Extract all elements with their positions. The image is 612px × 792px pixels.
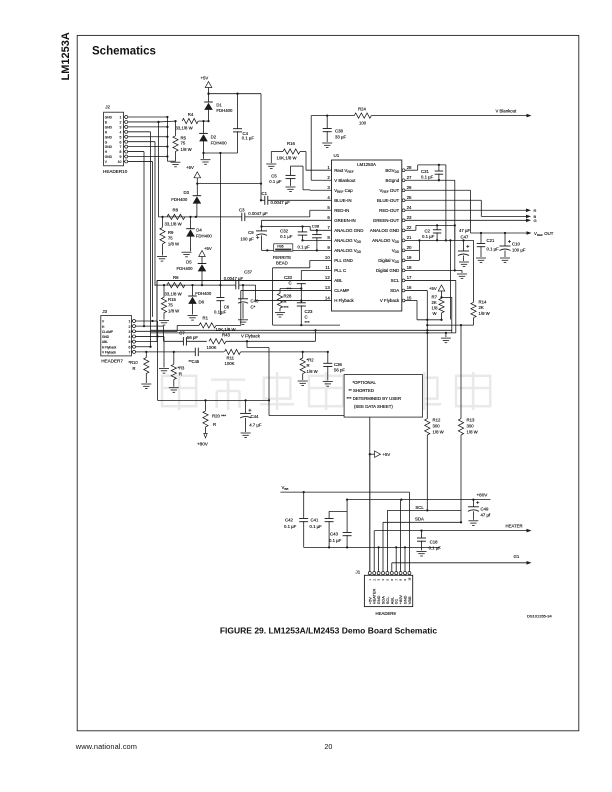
- svg-text:0.1 µF: 0.1 µF: [429, 546, 442, 551]
- svg-text:11: 11: [325, 265, 330, 270]
- svg-text:R6: R6: [173, 275, 179, 280]
- svg-text:J2: J2: [105, 105, 110, 110]
- svg-text:C2: C2: [425, 228, 431, 233]
- svg-text:BEAD: BEAD: [276, 261, 288, 266]
- svg-text:300: 300: [433, 424, 441, 429]
- svg-text:4: 4: [129, 335, 131, 339]
- svg-text:0.1 µF: 0.1 µF: [487, 247, 500, 252]
- svg-text:(SEE DATA SHEET): (SEE DATA SHEET): [354, 404, 393, 409]
- svg-text:R9: R9: [168, 230, 174, 235]
- svg-text:47 µf: 47 µf: [481, 513, 491, 518]
- svg-text:BLUE-OUT: BLUE-OUT: [377, 198, 400, 203]
- svg-text:R14: R14: [479, 300, 487, 305]
- svg-text:4: 4: [120, 130, 122, 134]
- svg-text:C31: C31: [421, 169, 429, 174]
- svg-text:75: 75: [181, 141, 186, 146]
- svg-text:FB6: FB6: [277, 244, 283, 248]
- svg-text:R11: R11: [227, 355, 235, 360]
- svg-text:0.1 µF: 0.1 µF: [310, 524, 323, 529]
- svg-text:SCL: SCL: [391, 278, 400, 283]
- svg-text:1/8: 1/8: [432, 305, 439, 310]
- svg-text:5: 5: [120, 135, 122, 139]
- svg-text:*R3: *R3: [178, 366, 186, 371]
- svg-text:FDH400: FDH400: [211, 140, 228, 145]
- svg-text:*R2: *R2: [307, 358, 315, 363]
- svg-text:7: 7: [129, 351, 131, 355]
- svg-text:D1: D1: [216, 102, 222, 107]
- svg-text:** SHORTED: ** SHORTED: [349, 388, 374, 393]
- svg-text:33,1/8 W: 33,1/8 W: [165, 291, 183, 296]
- svg-text:17: 17: [407, 275, 412, 280]
- svg-text:R: R: [307, 363, 310, 368]
- svg-text:DS101265-34: DS101265-34: [527, 614, 552, 619]
- svg-text:Schematics: Schematics: [92, 46, 156, 58]
- svg-text:C*: C*: [251, 305, 256, 310]
- svg-text:100 µF: 100 µF: [240, 237, 254, 242]
- svg-text:C18: C18: [430, 539, 438, 544]
- svg-text:22: 22: [407, 225, 412, 230]
- svg-text:CLAMP: CLAMP: [102, 330, 113, 334]
- svg-text:C42: C42: [285, 518, 293, 523]
- svg-text:R1: R1: [203, 316, 209, 321]
- svg-text:**C45: **C45: [189, 359, 200, 364]
- svg-text:***: ***: [284, 305, 289, 310]
- svg-text:100: 100: [359, 121, 367, 126]
- svg-text:33,1/8 W: 33,1/8 W: [176, 125, 194, 130]
- svg-text:C7: C7: [179, 331, 185, 336]
- svg-text:H Flyback: H Flyback: [334, 298, 354, 303]
- svg-text:C23: C23: [305, 309, 313, 314]
- svg-text:15: 15: [407, 295, 412, 300]
- svg-text:C: C: [305, 315, 308, 320]
- svg-text:C: C: [289, 281, 292, 286]
- svg-text:4.7 µF: 4.7 µF: [249, 422, 262, 427]
- svg-text:8: 8: [120, 150, 122, 154]
- svg-text:HEADER10: HEADER10: [103, 169, 128, 174]
- svg-text:C3: C3: [239, 207, 245, 212]
- svg-text:R: R: [213, 422, 216, 427]
- svg-text:FDH400: FDH400: [177, 266, 194, 271]
- svg-text:47 µF: 47 µF: [459, 228, 470, 233]
- svg-text:ANALOG GND: ANALOG GND: [370, 228, 399, 233]
- svg-text:3: 3: [129, 330, 131, 334]
- svg-text:+5V: +5V: [383, 452, 391, 457]
- svg-text:75: 75: [168, 303, 173, 308]
- svg-text:20: 20: [324, 742, 332, 751]
- svg-text:28: 28: [407, 165, 412, 170]
- svg-text:27: 27: [407, 175, 412, 180]
- svg-text:RED-IN: RED-IN: [334, 208, 349, 213]
- svg-text:SCL: SCL: [415, 505, 424, 510]
- svg-text:2K: 2K: [432, 300, 437, 305]
- svg-text:5: 5: [129, 340, 131, 344]
- svg-text:GND: GND: [105, 155, 113, 159]
- svg-text:9: 9: [120, 155, 122, 159]
- svg-text:10K,1/8 W: 10K,1/8 W: [216, 327, 237, 332]
- svg-text:C38: C38: [335, 128, 343, 133]
- svg-text:C32: C32: [280, 228, 288, 233]
- svg-text:C21: C21: [487, 238, 495, 243]
- svg-text:19: 19: [407, 255, 412, 260]
- svg-text:LM1253A: LM1253A: [60, 32, 72, 80]
- svg-text:C41: C41: [311, 518, 319, 523]
- svg-text:+80V: +80V: [477, 493, 489, 498]
- svg-text:23: 23: [407, 215, 412, 220]
- svg-text:G1: G1: [514, 554, 520, 559]
- svg-text:1/8 W: 1/8 W: [467, 430, 479, 435]
- svg-text:FDH400: FDH400: [216, 108, 233, 113]
- svg-text:SDA: SDA: [390, 288, 399, 293]
- svg-text:R24: R24: [358, 106, 366, 111]
- svg-text:C1: C1: [262, 191, 268, 196]
- svg-text:GREEN-IN: GREEN-IN: [334, 218, 355, 223]
- svg-text:1/8 W: 1/8 W: [168, 308, 180, 313]
- svg-text:33,1/8 W: 33,1/8 W: [165, 221, 183, 226]
- svg-text:J1: J1: [356, 570, 361, 575]
- svg-text:0.1 µF: 0.1 µF: [298, 244, 311, 249]
- svg-text:G: G: [534, 218, 537, 223]
- svg-text:***: ***: [305, 320, 310, 325]
- svg-text:U1: U1: [334, 153, 340, 158]
- svg-text:FERRITE: FERRITE: [273, 255, 292, 260]
- svg-text:3: 3: [120, 125, 122, 129]
- svg-text:R: R: [179, 372, 182, 377]
- svg-text:SDA: SDA: [415, 516, 424, 521]
- svg-text:R8: R8: [173, 207, 179, 212]
- svg-text:CLAMP: CLAMP: [334, 288, 349, 293]
- svg-text:FDH400: FDH400: [196, 233, 213, 238]
- svg-text:14: 14: [325, 295, 330, 300]
- svg-text:25: 25: [407, 195, 412, 200]
- svg-text:18: 18: [407, 265, 412, 270]
- svg-text:B: B: [105, 121, 107, 125]
- svg-text:RED-OUT: RED-OUT: [379, 208, 399, 213]
- svg-text:BGgnd: BGgnd: [386, 178, 400, 183]
- svg-text:PLL C: PLL C: [334, 268, 346, 273]
- svg-text:R28: R28: [284, 293, 292, 298]
- svg-text:100K: 100K: [225, 361, 235, 366]
- svg-text:R12: R12: [433, 418, 441, 423]
- svg-text:C38: C38: [312, 224, 320, 229]
- svg-text:0.1 µF: 0.1 µF: [284, 524, 297, 529]
- svg-text:V Blankout: V Blankout: [496, 108, 518, 113]
- svg-text:R16: R16: [287, 141, 295, 146]
- svg-text:0.1 µF: 0.1 µF: [280, 234, 293, 239]
- svg-text:D6: D6: [199, 299, 205, 304]
- svg-text:C5: C5: [271, 173, 277, 178]
- svg-text:V Flyback: V Flyback: [380, 298, 400, 303]
- svg-text:0.1 µF: 0.1 µF: [269, 179, 282, 184]
- svg-text:GND: GND: [105, 145, 113, 149]
- svg-text:C40: C40: [251, 299, 259, 304]
- svg-text:2: 2: [129, 325, 131, 329]
- svg-text:*** DETERMINED BY USER: *** DETERMINED BY USER: [347, 396, 402, 401]
- svg-text:J3: J3: [102, 309, 107, 314]
- svg-text:0.1 µF: 0.1 µF: [329, 538, 342, 543]
- svg-text:2K: 2K: [479, 305, 484, 310]
- svg-text:100 µF: 100 µF: [512, 247, 526, 252]
- svg-text:C36: C36: [334, 362, 342, 367]
- svg-text:D4: D4: [196, 228, 202, 233]
- svg-text:R13: R13: [467, 418, 475, 423]
- svg-text:24: 24: [407, 205, 412, 210]
- svg-text:R43: R43: [222, 333, 230, 338]
- svg-text:1/8 W: 1/8 W: [168, 241, 180, 246]
- svg-text:0.0047 µF: 0.0047 µF: [248, 211, 268, 216]
- svg-text:VBB: VBB: [407, 596, 412, 604]
- svg-text:GREEN-OUT: GREEN-OUT: [373, 218, 400, 223]
- svg-text:R4: R4: [188, 112, 194, 117]
- svg-text:+5V: +5V: [201, 76, 209, 81]
- svg-text:*R10: *R10: [129, 360, 139, 365]
- svg-text:GND: GND: [105, 125, 113, 129]
- svg-text:2: 2: [120, 121, 122, 125]
- svg-text:75: 75: [168, 235, 173, 240]
- svg-text:0.1 µF: 0.1 µF: [421, 174, 434, 179]
- svg-text:1: 1: [120, 116, 122, 120]
- svg-text:D2: D2: [211, 135, 217, 140]
- svg-text:*OPTIONAL: *OPTIONAL: [353, 380, 377, 385]
- svg-text:R7: R7: [432, 295, 438, 300]
- svg-text:+5V: +5V: [186, 165, 194, 170]
- svg-text:Digital GND: Digital GND: [376, 268, 399, 273]
- svg-text:20: 20: [407, 245, 412, 250]
- svg-text:+5V: +5V: [204, 246, 212, 251]
- svg-text:C9: C9: [248, 230, 254, 235]
- svg-text:300: 300: [467, 424, 475, 429]
- svg-text:0.1 µF: 0.1 µF: [242, 136, 255, 141]
- svg-text:R: R: [284, 299, 287, 304]
- svg-text:10: 10: [118, 160, 122, 164]
- svg-text:V Flyback: V Flyback: [102, 351, 116, 355]
- svg-text:21: 21: [407, 235, 412, 240]
- svg-text:R20 ***: R20 ***: [212, 414, 226, 419]
- svg-text:+5V: +5V: [429, 286, 437, 291]
- svg-text:GND: GND: [102, 335, 110, 339]
- svg-text:V Blankout: V Blankout: [334, 178, 356, 183]
- svg-text:FDH400: FDH400: [195, 291, 212, 296]
- svg-text:6: 6: [129, 345, 131, 349]
- svg-text:BLUE-IN: BLUE-IN: [334, 198, 351, 203]
- svg-text:0.0047 µF: 0.0047 µF: [271, 200, 291, 205]
- svg-text:ABL: ABL: [102, 340, 108, 344]
- svg-text:56 pF: 56 pF: [187, 335, 198, 340]
- svg-text:33 µF: 33 µF: [335, 134, 346, 139]
- svg-text:16: 16: [407, 285, 412, 290]
- svg-text:H Flyback: H Flyback: [102, 345, 117, 349]
- svg-text:D5: D5: [186, 259, 192, 264]
- svg-text:LM1253A: LM1253A: [357, 162, 376, 167]
- svg-text:GND: GND: [105, 135, 113, 139]
- svg-text:C43: C43: [330, 532, 338, 537]
- svg-text:HEADER9: HEADER9: [376, 611, 397, 616]
- svg-text:ABL: ABL: [334, 278, 343, 283]
- svg-text:10K,1/8 W: 10K,1/8 W: [277, 155, 298, 160]
- svg-text:FDH400: FDH400: [171, 197, 188, 202]
- svg-text:26: 26: [407, 185, 412, 190]
- svg-text:HEATER: HEATER: [506, 523, 523, 528]
- svg-text:1/8 W: 1/8 W: [433, 430, 445, 435]
- svg-text:1/8 W: 1/8 W: [307, 369, 319, 374]
- svg-text:+80V: +80V: [197, 442, 209, 447]
- svg-text:R: R: [534, 208, 537, 213]
- svg-text:D3: D3: [184, 190, 190, 195]
- svg-text:56 pF: 56 pF: [334, 368, 345, 373]
- svg-text:PLL GND: PLL GND: [334, 258, 353, 263]
- svg-text:1/8 W: 1/8 W: [181, 147, 193, 152]
- svg-text:6: 6: [120, 140, 122, 144]
- svg-text:100K: 100K: [207, 345, 217, 350]
- svg-text:C49: C49: [481, 506, 489, 511]
- svg-text:C37: C37: [244, 270, 252, 275]
- svg-text:www.national.com: www.national.com: [75, 742, 137, 751]
- svg-text:1/8 W: 1/8 W: [479, 311, 491, 316]
- svg-text:C10: C10: [512, 241, 520, 246]
- svg-text:R15: R15: [168, 297, 176, 302]
- svg-text:0.1 µF: 0.1 µF: [422, 234, 435, 239]
- svg-text:HEADER7: HEADER7: [101, 358, 123, 363]
- svg-text:ANALOG GND: ANALOG GND: [334, 228, 363, 233]
- svg-text:C33: C33: [284, 275, 292, 280]
- svg-text:12: 12: [325, 275, 330, 280]
- svg-text:C47: C47: [461, 234, 469, 239]
- svg-text:C44: C44: [251, 414, 259, 419]
- svg-text:13: 13: [325, 285, 330, 290]
- svg-text:7: 7: [120, 145, 122, 149]
- svg-text:GND: GND: [105, 116, 113, 120]
- svg-text:10: 10: [325, 255, 330, 260]
- svg-text:V Flyback: V Flyback: [241, 334, 261, 339]
- svg-text:R: R: [133, 366, 136, 371]
- svg-text:1: 1: [129, 320, 131, 324]
- svg-text:FIGURE 29. LM1253A/LM2453 Demo: FIGURE 29. LM1253A/LM2453 Demo Board Sch…: [220, 625, 438, 635]
